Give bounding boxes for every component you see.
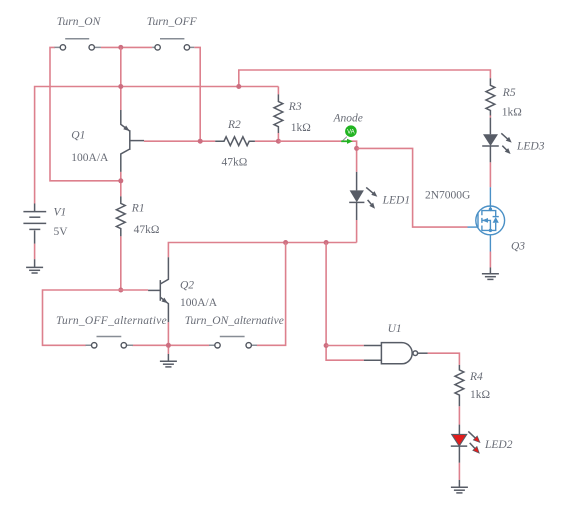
node rail branch [236,84,241,89]
wire branch down to U1 inputs [326,243,364,361]
wire Q1 base to R2 [144,140,215,142]
svg-text:5V: 5V [54,226,69,238]
svg-text:R3: R3 [288,101,302,113]
svg-text:U1: U1 [388,323,402,335]
transistor Q2 (NPN) [148,257,169,322]
LED2 [451,425,482,463]
resistor R5 [486,78,495,115]
wire Q3 source to ground [489,252,491,268]
svg-text:R2: R2 [227,119,241,131]
ground Q3 source [482,268,499,280]
resistor R2 [215,137,255,146]
svg-text:Q3: Q3 [511,241,525,253]
wire R4 bottom to LED2 [458,406,460,424]
node R2-R3 junction [276,139,281,144]
probe Anode [341,125,357,144]
svg-text:Turn_ON: Turn_ON [57,16,102,28]
wire R1 bottom to Q2 base row [120,236,122,290]
wire Q2 base lead pink [121,289,148,291]
wire Q2 base row left down to alt switch row [43,290,121,345]
node Q2 emitter ground junction [166,343,171,348]
wire battery top to rail [35,87,279,204]
svg-text:Turn_OFF: Turn_OFF [147,16,198,28]
svg-text:R1: R1 [131,203,145,215]
wire rail branch up to top rail [239,70,491,87]
wire LED1 bottom down to mid line [356,220,358,243]
node mid line branch to U1 [324,240,329,245]
ground battery [26,259,43,273]
svg-text:47kΩ: 47kΩ [222,156,248,168]
wire branch to Q3 gate [357,148,468,227]
svg-text:VA: VA [347,130,355,136]
battery V1 [23,204,46,244]
svg-text:LED1: LED1 [382,194,410,206]
switch Turn_ON_alternative [209,337,257,348]
wire LED2 bottom to ground [458,463,460,480]
switch Turn_OFF_alternative [86,337,134,348]
ground Q2 emitter [160,354,177,367]
svg-text:Anode: Anode [333,112,363,124]
wire R2 right to R3 node [255,140,279,142]
svg-text:R4: R4 [469,371,483,383]
node mid line branch to alt switch [283,240,288,245]
node R1 bottom Q2 base junction [118,288,123,293]
node LED1 top branch [354,146,359,151]
svg-text:R5: R5 [502,87,516,99]
svg-text:Turn_OFF_alternative: Turn_OFF_alternative [56,315,167,327]
svg-text:Q1: Q1 [71,130,85,142]
op-amp U1 (NAND gate) [364,343,428,364]
wire Turn_OFF right down to Q1 base line [194,47,200,141]
node rail at Q1 emitter [118,84,123,89]
transistor Q1 (PNP) [121,110,144,172]
node between top switches [118,45,123,50]
resistor R4 [455,365,464,406]
svg-text:V1: V1 [54,207,67,219]
node Turn_OFF drop on base line [198,139,203,144]
wire battery bottom to ground [34,244,36,260]
svg-text:Q2: Q2 [180,279,194,291]
ground LED2 [451,480,468,493]
svg-text:100A/A: 100A/A [71,152,109,164]
svg-text:Turn_ON_alternative: Turn_ON_alternative [185,315,284,327]
svg-text:100A/A: 100A/A [180,297,218,309]
wire Q2 collector up to mid line [168,243,356,258]
wire U1 input A [326,345,364,347]
wire Turn_ON right to switch node [101,46,152,48]
wire Turn_ON left to Q1 collector junction [50,47,121,180]
svg-text:LED3: LED3 [516,140,545,152]
wire U1 output to R4 [428,353,460,365]
svg-text:1kΩ: 1kΩ [502,107,522,119]
LED1 [349,172,379,220]
resistor R3 [274,94,283,133]
wire branch down to Turn_ON_alternative [257,243,286,346]
transistor Q3 (NMOS 2N7000G) [468,187,505,251]
switch Turn_ON [55,39,101,50]
svg-text:1kΩ: 1kΩ [291,122,311,134]
wire LED3 bottom to Q3 drain [489,162,491,187]
svg-text:LED2: LED2 [484,439,513,451]
svg-text:47kΩ: 47kΩ [134,224,160,236]
switch Turn_OFF [152,39,194,50]
wire switch node down to rail [120,47,122,110]
node U1 input junction [324,343,329,348]
svg-text:1kΩ: 1kΩ [470,389,490,401]
svg-text:2N7000G: 2N7000G [425,189,470,201]
wire R3 top drop [277,87,279,95]
wire alt switches middle to Q2 emitter node [132,322,210,354]
wire R3 bottom to base line [277,133,279,141]
wire R5 bottom to LED3 [489,116,491,118]
resistor R1 [116,196,125,236]
node Q1 collector junction [118,178,123,183]
wire Q1 collector to R1 [120,172,122,197]
wire node to anode corner down to LED1 [278,141,356,172]
LED3 [482,118,513,163]
